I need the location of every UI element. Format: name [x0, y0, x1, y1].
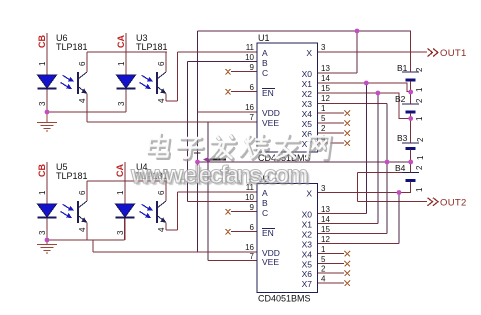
- phototransistor of U4: [156, 201, 158, 223]
- svg-text:A: A: [262, 48, 268, 58]
- phototransistor of U5: [77, 201, 79, 223]
- no-connect X on U2 pin 6: [226, 229, 231, 235]
- svg-text:2: 2: [321, 265, 326, 274]
- svg-text:10: 10: [245, 193, 254, 202]
- svg-text:4: 4: [78, 98, 87, 103]
- wire: riser T5 U2.X3 to B4- line: [398, 193, 400, 244]
- junction: top rail / X0 riser: [355, 29, 360, 34]
- wire: cathode link U5.3 to U4.3: [47, 239, 125, 241]
- svg-text:1: 1: [117, 61, 126, 66]
- svg-text:X7: X7: [302, 139, 313, 149]
- wire: CB net vertical through U6 LED: [46, 33, 48, 112]
- battery B2: [395, 92, 424, 121]
- no-connect X on U2 X4: [345, 251, 351, 257]
- LED of U5: [38, 204, 57, 217]
- wire: U1 pin13 X0 stub: [318, 72, 358, 74]
- wire: U6 collector pin 6: [86, 52, 88, 72]
- svg-text:13: 13: [321, 64, 330, 73]
- svg-text:15: 15: [321, 225, 330, 234]
- wire: T3 tap to B3 plus: [410, 119, 412, 144]
- svg-text:12: 12: [321, 94, 330, 103]
- wire: X0 riser to top rail: [356, 31, 358, 73]
- svg-text:CA: CA: [116, 35, 126, 48]
- svg-text:X: X: [306, 189, 312, 199]
- svg-text:2: 2: [416, 137, 425, 142]
- wire: U1 pin11 A input: [178, 51, 258, 53]
- node: T4 port arrow: [207, 159, 226, 161]
- wire: U2 pin4 X7 no-connect stub: [318, 282, 345, 284]
- battery B3: [397, 119, 425, 163]
- svg-text:5: 5: [321, 114, 326, 123]
- svg-text:9: 9: [250, 203, 255, 212]
- wire: cathode link U6.3 to U3.3: [47, 111, 126, 113]
- svg-text:7: 7: [250, 252, 255, 261]
- junction: U6 cathode / ground: [45, 110, 50, 115]
- svg-text:B3: B3: [397, 133, 408, 143]
- optocoupler U5 TLP181: [37, 162, 88, 240]
- port OUT1: [428, 48, 467, 59]
- svg-text:1: 1: [38, 61, 47, 66]
- wire: U1 pin5 X5 no-connect stub: [318, 122, 345, 124]
- svg-text:3: 3: [116, 230, 125, 235]
- no-connect X on U1 X7: [345, 141, 351, 147]
- wire: OUT2 line: [358, 201, 428, 203]
- wire: U1 pin14 X1 to battery chain: [318, 83, 411, 92]
- svg-text:3: 3: [38, 101, 47, 106]
- wire: U2 pin2 X6 no-connect stub: [318, 272, 345, 274]
- svg-text:X3: X3: [302, 240, 313, 250]
- svg-text:2: 2: [321, 124, 326, 133]
- optocoupler U3 TLP181: [116, 33, 168, 112]
- no-connect X on U1 X4: [345, 111, 351, 117]
- wire: top rail drop to B1 plus: [410, 31, 412, 72]
- wire: VDD/rail riser vertical x=197.5: [197, 31, 199, 252]
- ground at U5 cathode: [37, 240, 57, 253]
- svg-text:12: 12: [321, 235, 330, 244]
- wire: U2 pin1 X4 no-connect stub: [318, 253, 345, 255]
- wire: CB net vertical through U5 LED: [46, 162, 48, 240]
- wire: U2 pin13 X0 stub: [318, 213, 367, 215]
- wire: U3 collector pin 6: [165, 52, 167, 72]
- wire: U1 pin3 X to OUT1: [318, 51, 428, 53]
- svg-text:9: 9: [250, 63, 255, 72]
- junction: U5 cathode / ground: [45, 238, 50, 243]
- svg-text:X4: X4: [302, 250, 313, 260]
- light arrows U6: [61, 75, 71, 87]
- op-amp U1 CD4051BMS multiplexer: [226, 33, 351, 163]
- wire: U2 VEE pin7 stub: [208, 260, 257, 262]
- wire: U2 pin3 X and T5 line: [318, 192, 412, 194]
- svg-text:X1: X1: [302, 220, 313, 230]
- svg-text:OUT2: OUT2: [440, 198, 467, 209]
- wire: U5 emitter pin 4 down: [86, 223, 88, 241]
- svg-text:VEE: VEE: [262, 257, 279, 267]
- no-connect X on pin 6: [226, 89, 231, 95]
- svg-text:X7: X7: [302, 279, 313, 289]
- wire: U4 emitter pin 4 down: [165, 223, 167, 231]
- svg-text:15: 15: [321, 84, 330, 93]
- svg-text:1: 1: [38, 190, 47, 195]
- junction: T5 line / X3 riser: [397, 190, 402, 195]
- battery B4: [395, 162, 424, 193]
- wire: VEE bus riser to U2 pin7: [207, 122, 209, 261]
- svg-text:16: 16: [245, 243, 254, 252]
- wire: A2 bus riser: [177, 192, 179, 230]
- svg-text:C: C: [262, 208, 268, 218]
- wire: riser T3 U1.X2 to U2.X1: [377, 93, 379, 224]
- svg-text:14: 14: [321, 215, 330, 224]
- svg-text:4: 4: [321, 134, 326, 143]
- no-connect X on U1 X6: [345, 131, 351, 137]
- svg-text:4: 4: [157, 98, 166, 103]
- svg-text:1: 1: [415, 87, 424, 92]
- wire: B2 minus to tap T3: [410, 113, 412, 119]
- svg-text:5: 5: [321, 255, 326, 264]
- junction: B2/B3 tap T3: [408, 116, 413, 121]
- svg-text:6: 6: [157, 190, 166, 195]
- body U1: [257, 43, 318, 152]
- wire: U1 pin15 X2 to chain tap: [318, 93, 412, 119]
- wire: B4 minus to T5 line: [410, 181, 412, 192]
- svg-text:TLP181: TLP181: [56, 42, 88, 52]
- svg-text:2: 2: [415, 67, 424, 72]
- wire: U3 emitter jog to A bus: [166, 100, 178, 102]
- no-connect X on U2 X6: [345, 271, 351, 277]
- no-connect X on U2 X7: [345, 281, 351, 287]
- junction: T4 line / VDD rail: [195, 160, 200, 165]
- svg-text:X6: X6: [302, 269, 313, 279]
- svg-text:7: 7: [250, 113, 255, 122]
- wire: U4 collector pin 6: [165, 181, 167, 201]
- phototransistor of U6: [77, 72, 79, 94]
- svg-text:B: B: [262, 198, 268, 208]
- svg-text:CB: CB: [37, 35, 47, 48]
- wire: top rail from VDD riser to B1+: [198, 30, 412, 32]
- wire: U5 emitter branch to VDD2: [92, 240, 94, 252]
- svg-text:B2: B2: [395, 94, 406, 104]
- wire: riser T2 U1.X1 to U2.X0: [365, 83, 367, 214]
- svg-text:C: C: [262, 68, 268, 78]
- wire: A bus riser: [177, 52, 179, 101]
- wire: U1 pin12 X3 riser down: [318, 103, 388, 105]
- wire: U1 pin6 EN no-connect stub: [231, 91, 257, 93]
- light arrows U3: [140, 75, 150, 87]
- svg-text:TLP181: TLP181: [56, 171, 88, 181]
- svg-text:3: 3: [321, 43, 326, 52]
- phototransistor of U3: [156, 72, 158, 94]
- wire: U2 pin9 C no-connect stub: [231, 211, 257, 213]
- wire: U1 VDD pin16 stub: [198, 111, 258, 113]
- svg-text:X1: X1: [302, 79, 313, 89]
- svg-text:X3: X3: [302, 99, 313, 109]
- svg-text:X2: X2: [302, 89, 313, 99]
- wire: U5 collector pin 6: [86, 181, 88, 201]
- wire: U4 emitter jog to A2 bus: [166, 229, 178, 231]
- junction: T4 line / T4 riser: [385, 160, 390, 165]
- svg-text:X6: X6: [302, 129, 313, 139]
- op-amp U2 CD4051BMS multiplexer: [226, 174, 351, 304]
- wire: B3 minus to tap T4: [410, 150, 412, 163]
- svg-text:X0: X0: [302, 69, 313, 79]
- wire: U1 pin2 X6 no-connect stub: [318, 132, 345, 134]
- svg-text:10: 10: [245, 53, 254, 62]
- wire: U1 pin9 C no-connect stub: [231, 71, 257, 73]
- svg-text:6: 6: [78, 61, 87, 66]
- optocoupler U6 TLP181: [37, 33, 88, 122]
- svg-text:EN: EN: [262, 228, 274, 238]
- svg-text:CB: CB: [37, 164, 47, 177]
- wire: T4 tap line B3-/B4+: [198, 161, 412, 163]
- svg-text:3: 3: [117, 101, 126, 106]
- svg-text:13: 13: [321, 205, 330, 214]
- junction: X1 line / T2 riser: [364, 81, 369, 86]
- svg-text:6: 6: [157, 61, 166, 66]
- svg-text:6: 6: [78, 190, 87, 195]
- wire: OUT2 drop from pin3: [357, 173, 359, 202]
- wire: T4 tap to B4 plus: [410, 162, 412, 173]
- svg-text:X2: X2: [302, 230, 313, 240]
- svg-text:X5: X5: [302, 119, 313, 129]
- wire: collector tie U6.6 to U3.6: [87, 51, 167, 53]
- wire: U2 pin5 X5 no-connect stub: [318, 263, 345, 265]
- ground at U6 cathode: [37, 112, 57, 131]
- junction: X2 line / T3 riser: [376, 91, 381, 96]
- wire: CA net vertical through U4 LED: [124, 162, 126, 240]
- light arrows U5: [61, 204, 71, 216]
- battery B1: [397, 31, 424, 92]
- wire: U1 pin4 X7 no-connect stub: [318, 142, 345, 144]
- svg-text:1: 1: [321, 104, 326, 113]
- svg-text:4: 4: [157, 227, 166, 232]
- svg-text:VEE: VEE: [262, 118, 279, 128]
- port OUT2: [428, 198, 467, 209]
- svg-text:2: 2: [415, 98, 424, 103]
- svg-text:B: B: [262, 58, 268, 68]
- wire: VEE line U6.4 to U1 pin7: [87, 121, 257, 123]
- wire: U2 pin6 EN no-connect stub: [231, 231, 257, 233]
- body U2: [257, 184, 318, 293]
- wire: U2 pin12 X3 stub: [318, 243, 400, 245]
- svg-text:X0: X0: [302, 210, 313, 220]
- wire: T2 tap to B2 plus: [410, 92, 412, 104]
- wire: U2 VDD pin16 line: [93, 251, 257, 253]
- wire: U2 pin15 X2 stub: [318, 233, 388, 235]
- svg-text:CD4051BMS: CD4051BMS: [258, 294, 311, 304]
- wire: collector tie U5.6 to U4.6: [87, 180, 167, 182]
- svg-text:TLP181: TLP181: [136, 42, 168, 52]
- svg-text:4: 4: [78, 227, 87, 232]
- wire: U2 pin10 B input from B bus: [187, 201, 257, 203]
- svg-text:14: 14: [321, 74, 330, 83]
- no-connect X on U2 X5: [345, 261, 351, 267]
- svg-text:1: 1: [321, 245, 326, 254]
- watermark line 2: [131, 161, 471, 190]
- svg-text:U1: U1: [258, 33, 270, 43]
- svg-text:VDD: VDD: [262, 108, 280, 118]
- svg-text:16: 16: [245, 103, 254, 112]
- svg-text:4: 4: [321, 275, 326, 284]
- svg-text:1: 1: [116, 190, 125, 195]
- svg-text:6: 6: [250, 223, 255, 232]
- wire: riser T4 U1.X3 to U2.X2: [386, 104, 388, 234]
- no-connect X on U2 pin 9: [226, 209, 231, 215]
- svg-text:CA: CA: [115, 164, 125, 177]
- svg-text:X: X: [306, 48, 312, 58]
- wire: U1 pin1 X4 no-connect stub: [318, 112, 345, 114]
- svg-text:EN: EN: [262, 88, 274, 98]
- wire: U2 pin14 X1 stub: [318, 223, 378, 225]
- wire: H6 link to B4+: [358, 172, 404, 174]
- svg-text:6: 6: [250, 83, 255, 92]
- wire: U3 emitter pin 4 down: [165, 94, 167, 102]
- svg-text:3: 3: [38, 230, 47, 235]
- wire: CA net vertical through U3 LED: [125, 33, 127, 112]
- no-connect X on U1 X5: [345, 121, 351, 127]
- wire: U4 cathode drop: [124, 217, 126, 240]
- wire: B1 minus to tap T2: [410, 81, 412, 92]
- svg-text:X5: X5: [302, 260, 313, 270]
- no-connect X on pin 9: [226, 69, 231, 75]
- svg-text:1: 1: [416, 155, 425, 160]
- svg-text:OUT1: OUT1: [440, 48, 467, 59]
- wire: U6 emitter pin 4 down to VEE line: [86, 94, 88, 123]
- LED of U3: [117, 75, 136, 88]
- wire: U2 pin11 A input: [178, 191, 258, 193]
- optocoupler U4 TLP181: [115, 162, 168, 240]
- light arrows U4: [140, 204, 150, 216]
- junction: B3/B4 tap T4: [408, 160, 413, 165]
- LED of U4: [116, 204, 135, 217]
- svg-text:1: 1: [415, 116, 424, 121]
- junction: B1/B2 tap T2: [408, 90, 413, 95]
- LED of U6: [38, 75, 57, 88]
- svg-text:X4: X4: [302, 109, 313, 119]
- svg-text:11: 11: [246, 43, 255, 52]
- wire: B bus U1 pin10 to U2 pin10: [187, 62, 257, 202]
- watermark hanzi line (vector): [147, 134, 332, 160]
